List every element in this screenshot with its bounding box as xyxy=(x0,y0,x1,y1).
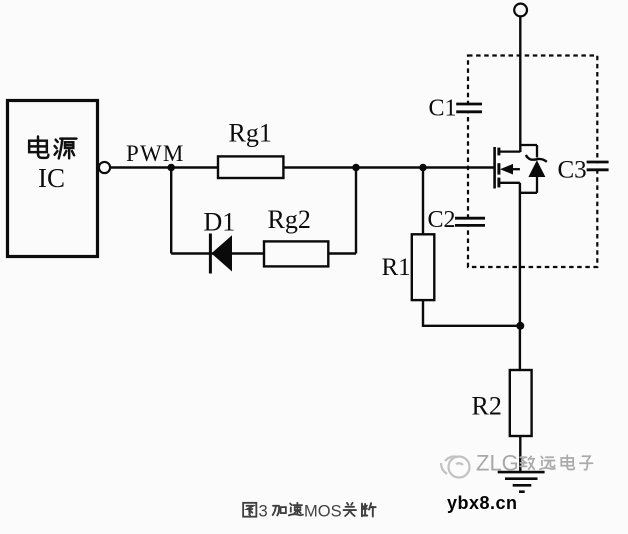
svg-text:3: 3 xyxy=(259,503,268,521)
capacitor C2 plates xyxy=(455,218,485,225)
svg-text:MOS: MOS xyxy=(304,503,342,521)
svg-text:C2: C2 xyxy=(428,207,456,233)
diode D1 xyxy=(210,234,232,274)
svg-text:ZLG: ZLG xyxy=(476,451,519,476)
wire: top terminal to drain xyxy=(519,16,521,152)
svg-text:C1: C1 xyxy=(429,96,457,122)
label 电源 (IC box) xyxy=(29,137,76,159)
white gap for C3 on dashed edge xyxy=(591,163,604,168)
terminal circle at IC output xyxy=(99,162,110,173)
resistor R1 xyxy=(412,234,435,300)
MOSFET Q1 xyxy=(495,147,521,189)
caption 图3 加速MOS关断 xyxy=(243,503,375,521)
watermark logo xyxy=(441,457,470,478)
power IC box xyxy=(8,101,98,257)
svg-text:Rg2: Rg2 xyxy=(268,205,311,234)
resistor R2 xyxy=(510,370,532,436)
top terminal circle xyxy=(514,4,527,17)
svg-text:PWM: PWM xyxy=(126,141,185,166)
svg-text:Rg1: Rg1 xyxy=(229,119,272,148)
ground symbol xyxy=(498,472,545,492)
body diode of MOSFET xyxy=(520,145,547,193)
watermark text ZLG致远电子 xyxy=(476,451,593,476)
capacitor C1 plates xyxy=(456,104,482,112)
dashed MOSFET package box xyxy=(468,56,597,268)
svg-text:ybx8.cn: ybx8.cn xyxy=(447,493,518,513)
wire: left branch down from PWM node xyxy=(170,168,172,254)
wire: R1 branch down from gate wire xyxy=(422,168,424,235)
wire: D1/Rg2 branch horizontal xyxy=(171,252,356,254)
svg-text:D1: D1 xyxy=(204,208,236,237)
wire: R1 bottom to source node xyxy=(423,300,521,326)
capacitor C3 plates xyxy=(587,162,609,170)
svg-text:C3: C3 xyxy=(558,157,587,184)
junction node R1 top xyxy=(419,164,427,172)
resistor Rg2 xyxy=(264,241,328,266)
junction node at PWM xyxy=(167,164,175,172)
white gap for C2 on dashed edge xyxy=(461,220,475,225)
wire: R2 to ground xyxy=(519,436,521,471)
junction node right branch top xyxy=(352,164,360,172)
svg-text:R1: R1 xyxy=(382,254,411,281)
wire: right branch up to gate wire xyxy=(355,168,357,254)
wire: PWM output to gate xyxy=(111,166,494,168)
wire: source down to R2 xyxy=(519,183,521,370)
junction node source/R1/R2 xyxy=(516,322,524,330)
svg-text:R2: R2 xyxy=(472,392,502,421)
resistor Rg1 xyxy=(218,156,283,178)
svg-text:IC: IC xyxy=(38,163,65,193)
white gap for C1 on dashed edge xyxy=(461,105,475,110)
